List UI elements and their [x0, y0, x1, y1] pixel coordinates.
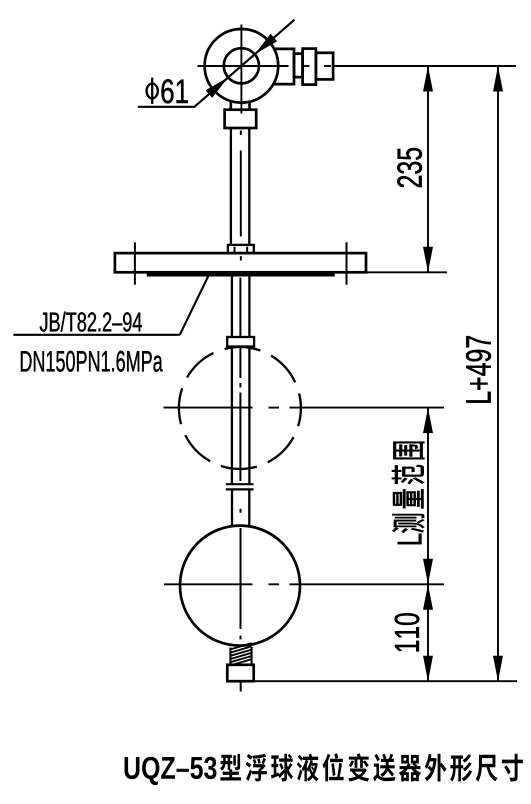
arrow down at bottom (110)	[423, 656, 433, 682]
dimension text char 围	[394, 442, 425, 460]
guide tube right edge (coupling to float)	[248, 491, 250, 526]
title char 浮	[246, 754, 267, 782]
thread line 2	[230, 646, 251, 652]
title char 型	[220, 754, 241, 780]
head horizontal centerline	[198, 65, 289, 67]
vertical centerline dash below block	[240, 131, 242, 136]
flange raised face thick line	[147, 273, 335, 276]
thread line 3	[230, 650, 251, 656]
float ball lower position	[180, 526, 300, 646]
vertical centerline dash at nut	[240, 256, 242, 260]
diameter value 61	[161, 79, 187, 103]
dimension line 235	[427, 66, 429, 272]
flange bolt centerline left	[134, 242, 136, 284]
dimension text 110	[395, 613, 420, 651]
leader diagonal to flange	[180, 272, 211, 335]
upper float horizontal centerline dash	[269, 407, 280, 409]
hex nut above flange	[228, 245, 254, 253]
inner rod (flange to collar)	[239, 278, 241, 337]
leader arrow lower (points up-right at inner circle)	[206, 77, 229, 98]
title char 液	[297, 754, 319, 782]
head dial inner circle	[224, 48, 259, 83]
phi symbol bowl	[147, 84, 158, 99]
guide tube left edge (flange to collar)	[231, 272, 233, 337]
guide tube right edge (flange to collar)	[248, 272, 250, 337]
coupling bar lower	[226, 488, 254, 490]
arrow up at 66 (L+497)	[493, 66, 503, 92]
threaded stud right edge	[251, 647, 253, 665]
flange bolt centerline right	[346, 242, 348, 284]
flange standard text JB/T82.2-94	[40, 312, 142, 332]
dimension line L measuring range	[427, 408, 429, 585]
bottom extension line to dimensions	[254, 680, 517, 682]
coupling bar upper	[226, 483, 254, 485]
upper float centerline extension to dimension	[290, 407, 445, 409]
inner rod segment 2	[239, 393, 241, 482]
title char 球	[271, 754, 293, 782]
leader arrow upper (points down-left at inner circle)	[255, 34, 278, 55]
inner rod segment	[239, 347, 241, 379]
title char 位	[322, 753, 343, 781]
thread line 1	[230, 643, 251, 649]
title char 尺	[476, 755, 498, 782]
title char 寸	[502, 754, 523, 782]
head housing outer circle	[205, 29, 279, 103]
dimension line L+497	[497, 66, 499, 681]
title char 外	[425, 754, 447, 782]
leader underline for JB/T	[13, 334, 180, 336]
thread line 5	[230, 656, 251, 662]
arrow down at lower float center	[423, 559, 433, 585]
neck left edge	[229, 101, 232, 110]
tube centerline dash	[240, 509, 242, 513]
arrow up at 66 (235)	[423, 66, 433, 92]
title char 器	[399, 755, 421, 782]
float ball upper position (dashed)	[179, 347, 301, 469]
head centerline dash in connector 1	[302, 65, 310, 67]
dimension text L (latin part of L measuring range)	[398, 534, 422, 545]
connector block 3	[316, 53, 333, 80]
threaded stud left edge	[229, 648, 231, 665]
dimension line 110	[427, 584, 429, 681]
guide tube left edge (coupling to float)	[231, 491, 233, 526]
thread line 6	[230, 659, 251, 665]
arrow down at bottom (L+497)	[493, 656, 503, 682]
diameter leader diagonal line	[194, 20, 294, 107]
lower float vertical centerline	[240, 528, 242, 629]
diameter leader underline	[138, 106, 196, 108]
arrow down at flange (235)	[423, 247, 433, 272]
title char 变	[348, 753, 369, 781]
arrow up at upper float center	[423, 408, 433, 434]
connector narrow middle piece	[294, 54, 303, 78]
collar stop ring	[227, 337, 254, 347]
weight block	[227, 665, 253, 681]
top extension line at head centerline	[333, 65, 516, 67]
flange bottom extension line to dimension	[366, 271, 447, 273]
title latin part UQZ-53	[125, 757, 217, 785]
junction block	[225, 110, 257, 128]
thread line 4	[230, 653, 251, 659]
nut facet right	[246, 247, 248, 253]
lower float vertical centerline dash	[240, 636, 242, 640]
inner rod centerline dash	[239, 383, 241, 388]
title char 送	[373, 754, 395, 782]
head centerline dash in connector 2	[324, 65, 331, 67]
upper tube right edge	[248, 128, 250, 245]
upper tube left edge	[230, 128, 232, 245]
lower float centerline extension to dimension	[290, 583, 445, 585]
arrow up at lower float center (110)	[423, 584, 433, 610]
nut facet left	[234, 247, 236, 253]
neck right edge	[248, 101, 251, 110]
dimension text L+497	[466, 336, 491, 403]
guide tube right edge (collar to coupling)	[248, 347, 250, 484]
guide tube left edge (collar to coupling)	[231, 347, 233, 484]
vertical centerline (upper tube long dash)	[240, 151, 242, 237]
dimension text char 测	[392, 514, 424, 533]
dimension text 235	[397, 148, 422, 187]
lower float horizontal centerline left	[164, 583, 253, 585]
vertical centerline (head)	[240, 25, 242, 114]
connector block 1 (three open sides)	[274, 49, 295, 84]
title char 形	[450, 754, 472, 781]
phi symbol stem	[151, 78, 153, 104]
upper float horizontal centerline left	[164, 407, 253, 409]
flange spec text DN150PN1.6MPa	[21, 351, 163, 372]
connector block 2 (tall)	[303, 49, 316, 85]
dimension text char 范	[392, 465, 424, 484]
bottom centerline stub	[240, 681, 242, 691]
flange plate	[115, 253, 366, 272]
lower float horizontal centerline dash	[269, 583, 280, 585]
dimension text char 量	[393, 489, 423, 508]
